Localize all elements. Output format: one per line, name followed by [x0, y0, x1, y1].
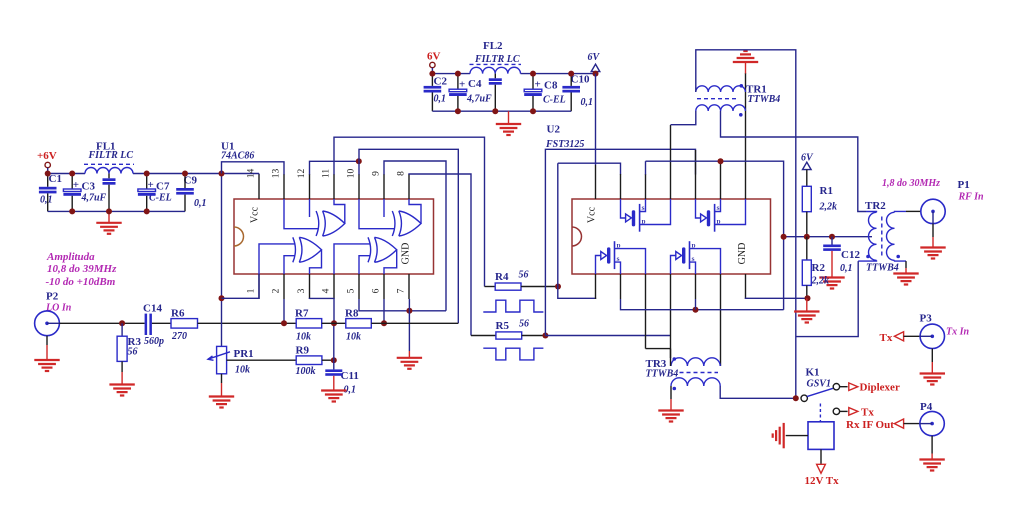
pin 6 [383, 274, 385, 299]
svg-text:4: 4 [322, 288, 332, 293]
pin 8 [408, 174, 410, 199]
svg-text:GSV1: GSV1 [807, 379, 831, 390]
ground TR1 inverted [745, 62, 747, 73]
wire R4 node vertical to ctrl1 and U2 gnd-side rail [558, 163, 596, 299]
wire pin5 to pin7 bridge [359, 299, 446, 311]
ground FL2 [508, 111, 510, 124]
capacitor FL1 tap [108, 174, 110, 179]
pin 2 [283, 274, 285, 299]
wire pin12 to pin10 node [310, 161, 359, 174]
svg-text:C11: C11 [341, 370, 359, 382]
svg-text:C12: C12 [841, 249, 860, 261]
wire FL2 bottom rail [432, 110, 571, 112]
svg-text:2,2k: 2,2k [819, 202, 838, 213]
svg-text:FILTR LC: FILTR LC [474, 54, 520, 65]
wire U1 inside pin2 to gateC in2 [284, 256, 295, 274]
wire U1 inside pin4 to gateD in1 [334, 244, 370, 274]
svg-text:Diplexer: Diplexer [860, 382, 900, 394]
svg-text:D: D [692, 244, 696, 250]
svg-text:FST3125: FST3125 [545, 139, 584, 150]
svg-text:56: 56 [519, 319, 529, 330]
svg-text:S: S [617, 257, 620, 263]
svg-text:6V: 6V [588, 52, 601, 63]
wire FL1 top rail [48, 173, 85, 175]
bus switch U2D [671, 256, 676, 275]
svg-text:C-EL: C-EL [543, 95, 566, 106]
ground FL1 [108, 211, 110, 222]
wire U1 inside gateA out to pin11 [334, 199, 345, 224]
wire TR2 primary bottom to Tx net [858, 259, 876, 262]
ground P2 [46, 336, 48, 345]
svg-text:3: 3 [297, 288, 307, 293]
xor gate U1A top-left [316, 211, 319, 236]
wire pin6 to LO line [383, 299, 385, 323]
pin 11 [333, 174, 335, 199]
wire TR2 secondary top to P1 [895, 210, 907, 213]
svg-text:1: 1 [247, 288, 257, 293]
wire C11 node to pin4 node [333, 323, 335, 360]
junction dot R4 out [555, 284, 561, 290]
wire pin14 Vcc corner [258, 174, 260, 175]
svg-text:7: 7 [397, 288, 407, 293]
pin 4 [333, 274, 335, 299]
svg-text:TTWB4: TTWB4 [866, 263, 899, 274]
ground TR2 secondary bottom [895, 259, 907, 262]
svg-text:P1: P1 [958, 179, 970, 191]
ground PR1 [221, 374, 223, 383]
wire U1 inside pin12 to gateA in1 [309, 199, 311, 217]
svg-text:10: 10 [347, 169, 357, 179]
wire U1 inside pin1 to gateC in1 [259, 244, 295, 274]
svg-text:C3: C3 [82, 181, 96, 193]
svg-text:Rx IF Out: Rx IF Out [846, 419, 894, 431]
svg-text:P2: P2 [46, 291, 59, 303]
svg-text:Tx: Tx [880, 332, 893, 344]
xor gate U1B top-right [392, 211, 395, 236]
svg-text:+6V: +6V [37, 150, 57, 162]
svg-text:0,1: 0,1 [434, 94, 447, 105]
svg-text:U2: U2 [547, 124, 561, 136]
svg-text:12V Tx: 12V Tx [805, 475, 840, 487]
svg-text:10k: 10k [235, 365, 250, 376]
bus switch U2C [596, 256, 601, 275]
svg-text:FILTR LC: FILTR LC [88, 150, 134, 161]
wire U1 inside gateB out to pin8 [409, 199, 421, 224]
wire pin9 to gnd bridge [384, 161, 446, 311]
wire pin11 to R4 [334, 137, 485, 286]
ground R2 / U2 gnd [805, 295, 811, 301]
svg-text:R6: R6 [171, 308, 185, 320]
svg-text:Vcc: Vcc [250, 206, 261, 223]
pin 9 [383, 174, 385, 199]
wire TR3 secondary right to K1 [720, 386, 796, 398]
wire mixer output node line [784, 236, 872, 238]
wire U1 inside pin10 to gateB in2 [359, 199, 394, 229]
svg-text:9: 9 [372, 171, 382, 176]
svg-text:6: 6 [372, 288, 382, 293]
svg-text:Tx: Tx [861, 407, 874, 419]
svg-text:74AC86: 74AC86 [221, 151, 254, 162]
svg-text:S: S [692, 257, 695, 263]
svg-text:8: 8 [397, 171, 407, 176]
power 12V Tx arrow [820, 449, 822, 464]
svg-text:TTWB4: TTWB4 [646, 369, 679, 380]
svg-text:C2: C2 [434, 76, 448, 88]
svg-text:GND: GND [737, 243, 748, 265]
svg-text:D: D [717, 220, 721, 226]
wire U1 inside pin5 to gateD in2 [359, 256, 370, 274]
wire TR1 secondary left to U2 D1 [671, 111, 696, 125]
wire D3 jog to TR3 [646, 348, 671, 350]
wire TR2 primary top curl [866, 211, 877, 214]
bus switch U2B [696, 199, 701, 218]
pin 10 [358, 174, 360, 199]
junction dot R9/C11 [331, 357, 337, 363]
ground P4 [931, 436, 933, 454]
wire FL2 top rail [432, 73, 470, 75]
svg-text:0,1: 0,1 [581, 97, 594, 108]
svg-text:0,1: 0,1 [194, 198, 207, 209]
wire TR3 primary left leg [670, 349, 672, 366]
svg-text:12: 12 [297, 169, 307, 179]
svg-text:TTWB4: TTWB4 [748, 94, 781, 105]
wire S1 S2 tie line [646, 161, 784, 310]
wire U1 inside gateD out to pin6 [384, 250, 397, 274]
svg-text:GND: GND [401, 243, 412, 265]
junction dot R5 out [542, 333, 548, 339]
pin 1 [258, 274, 260, 299]
svg-text:100k: 100k [296, 366, 316, 377]
svg-text:C1: C1 [49, 173, 62, 185]
svg-text:0,1: 0,1 [40, 195, 53, 206]
svg-text:R4: R4 [495, 271, 509, 283]
wire U1 inside pin13 to gateA in2 [284, 199, 318, 229]
svg-text:C7: C7 [156, 181, 170, 193]
wire FL1 bottom rail [48, 210, 185, 212]
capacitor FL2 tap [494, 74, 496, 79]
svg-text:K1: K1 [806, 367, 820, 379]
svg-text:14: 14 [247, 169, 257, 179]
xor gate U1D bottom-right [368, 237, 371, 262]
svg-text:1,8 do 30MHz: 1,8 do 30MHz [882, 178, 940, 189]
svg-text:P3: P3 [920, 313, 933, 325]
wire R5 node to ctrl2 [545, 149, 695, 335]
svg-text:PR1: PR1 [234, 348, 254, 360]
xor gate U1C bottom-left [293, 237, 296, 262]
wire pin3-pin4 bridge [310, 298, 335, 323]
pin 5 [358, 274, 360, 299]
ground U1 pin7 [408, 299, 410, 351]
svg-text:4,7uF: 4,7uF [81, 193, 107, 204]
squarewave symbol LO phase A [483, 300, 543, 312]
pin 12 [309, 174, 311, 199]
svg-text:D: D [617, 244, 621, 250]
svg-text:RF In: RF In [958, 192, 985, 203]
junction dots FL2 [429, 71, 435, 77]
wire pin1 tie segment [222, 274, 260, 298]
wire U2 gnd pin rail [746, 297, 808, 300]
wire TR1 centre tap to TR2 [721, 111, 867, 212]
svg-text:C8: C8 [544, 80, 558, 92]
pin 3 [309, 274, 311, 299]
svg-text:10k: 10k [346, 332, 361, 343]
svg-text:10k: 10k [296, 332, 311, 343]
relay K1 coil [819, 404, 821, 422]
junction dots FL1 [45, 171, 51, 177]
svg-text:2: 2 [272, 288, 282, 293]
svg-text:R2: R2 [812, 262, 826, 274]
svg-text:S: S [717, 206, 720, 212]
wire S3 S4 rail [621, 299, 784, 310]
svg-text:0,1: 0,1 [840, 263, 853, 274]
bus switch U2A [621, 199, 626, 218]
svg-text:TR2: TR2 [865, 200, 886, 212]
wire U1 inside pin9 to gateB in1 [383, 199, 385, 217]
wire LO line [59, 322, 144, 324]
svg-text:Vcc: Vcc [587, 206, 598, 223]
wire R6 to R7 [198, 322, 297, 324]
wire pin13 tie-high [222, 162, 285, 175]
junction dot R3 [119, 320, 125, 326]
svg-text:13: 13 [272, 169, 282, 179]
wire R5 node to ctrl4 riser [545, 335, 670, 337]
svg-text:D: D [642, 220, 646, 226]
U2 pins top [595, 165, 597, 199]
svg-text:56: 56 [128, 347, 138, 358]
svg-text:56: 56 [519, 270, 529, 281]
svg-text:270: 270 [171, 331, 187, 342]
ground P3 [931, 349, 933, 363]
wire pin2 to LO line [283, 299, 285, 323]
svg-text:10,8 do 39MHz: 10,8 do 39MHz [47, 263, 117, 275]
svg-text:4,7uF: 4,7uF [466, 94, 492, 105]
pin 7 [408, 274, 410, 299]
wire 6V to U2 Vcc [595, 74, 597, 165]
svg-text:R1: R1 [820, 185, 833, 197]
svg-text:Amplituda: Amplituda [46, 251, 95, 263]
svg-text:560p: 560p [144, 336, 164, 347]
svg-text:6V: 6V [801, 153, 814, 164]
svg-text:R7: R7 [295, 308, 309, 320]
svg-text:Tx In: Tx In [946, 327, 970, 338]
node +6V vertical bias rail [221, 174, 223, 347]
svg-text:S: S [642, 206, 645, 212]
svg-text:5: 5 [347, 288, 357, 293]
svg-text:R8: R8 [345, 308, 359, 320]
svg-text:11: 11 [322, 169, 332, 178]
svg-text:6V: 6V [427, 51, 441, 63]
squarewave symbol LO phase B [483, 348, 543, 360]
svg-text:-10 do +10dBm: -10 do +10dBm [46, 276, 116, 288]
pin 14 [258, 174, 260, 199]
wire U1 inside gateC out to pin3 [310, 250, 322, 274]
wire pin8 to R5 [409, 174, 471, 336]
svg-text:2,2k: 2,2k [811, 276, 830, 287]
svg-text:R5: R5 [496, 320, 510, 332]
wire pin10 to LO node [359, 149, 458, 323]
svg-text:FL2: FL2 [483, 40, 503, 52]
svg-text:C4: C4 [468, 78, 482, 90]
U2 pins bottom [595, 274, 597, 299]
pin 13 [283, 174, 285, 199]
chassis ground K1 coil [786, 435, 808, 437]
ground P1 [932, 224, 934, 237]
ground TR3 secondary left [670, 386, 672, 399]
wire TR1 primary loop to K1 [696, 50, 796, 399]
svg-text:R9: R9 [296, 345, 310, 357]
svg-text:C14: C14 [143, 303, 162, 315]
